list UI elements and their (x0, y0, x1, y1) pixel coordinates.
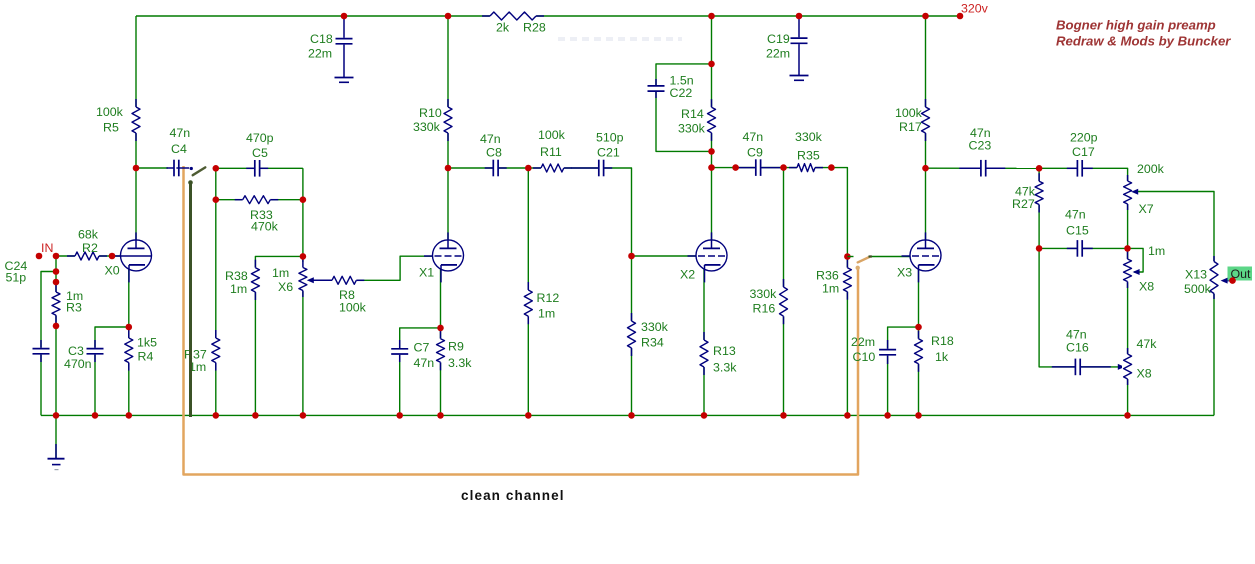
wire R5 branch (135, 16, 137, 168)
junction (445, 13, 452, 20)
wire C7 tee (400, 328, 441, 416)
resistor R37 1m (184, 330, 221, 374)
junction (126, 324, 133, 331)
junction (213, 412, 220, 419)
junction (701, 412, 708, 419)
triode X2 (680, 232, 727, 282)
svg-text:1m: 1m (822, 282, 839, 296)
capacitor C4 right lead (179, 167, 189, 169)
title text (1056, 18, 1231, 49)
svg-text:2k: 2k (496, 21, 510, 35)
svg-text:470p: 470p (246, 131, 274, 145)
svg-text:470k: 470k (251, 220, 279, 234)
svg-text:51p: 51p (6, 271, 27, 285)
capacitor C22 1.5n (647, 74, 694, 101)
resistor R27 47k (1012, 173, 1045, 212)
junction (109, 253, 116, 260)
svg-text:100k: 100k (339, 301, 367, 315)
capacitor C24 51p (5, 259, 51, 362)
svg-text:IN: IN (41, 241, 53, 255)
svg-text:R11: R11 (540, 145, 562, 159)
junction (732, 164, 739, 171)
junction (628, 253, 635, 260)
wire C23 row (926, 167, 1040, 169)
svg-text:470n: 470n (64, 357, 92, 371)
junction (708, 61, 715, 68)
svg-text:R16: R16 (753, 302, 776, 316)
svg-text:1k5: 1k5 (137, 336, 157, 350)
junction (796, 13, 803, 20)
capacitor C7 47n (391, 340, 435, 370)
junction (300, 196, 307, 203)
junction (53, 253, 60, 260)
svg-text:1m: 1m (272, 266, 289, 280)
junction (1124, 245, 1131, 252)
junction (1036, 165, 1043, 172)
wire X3 grid (872, 256, 911, 258)
junction (525, 412, 532, 419)
wire C3 tee (95, 327, 129, 415)
svg-text:R38: R38 (225, 269, 248, 283)
svg-text:100k: 100k (538, 128, 566, 142)
capacitor C21 510p (571, 131, 623, 178)
junction (957, 13, 964, 20)
svg-text:22m: 22m (308, 47, 332, 61)
svg-text:330k: 330k (678, 122, 706, 136)
svg-text:22m: 22m (851, 335, 875, 349)
svg-text:R28: R28 (523, 21, 546, 35)
svg-text:R27: R27 (1012, 197, 1035, 211)
resistor R13 3.3k (698, 332, 737, 375)
junction (300, 253, 307, 260)
potentiometer X13 500k (1184, 256, 1232, 299)
svg-text:C15: C15 (1066, 224, 1089, 238)
potentiometer X8 middle 1m (1122, 244, 1165, 294)
svg-text:X7: X7 (1139, 202, 1154, 216)
resistor R3 1m (50, 284, 83, 323)
junction (844, 412, 851, 419)
node Out label (1228, 267, 1253, 284)
resistor R33 470k (235, 194, 279, 233)
svg-text:C4: C4 (171, 142, 187, 156)
ground at C18 (335, 78, 354, 83)
junction (1036, 245, 1043, 252)
triode X1 (419, 232, 464, 282)
wire X2 cathode / R13 (703, 268, 705, 415)
junction (915, 412, 922, 419)
svg-text:C7: C7 (414, 341, 430, 355)
svg-text:R2: R2 (82, 241, 98, 255)
svg-text:330k: 330k (413, 120, 441, 134)
junction (213, 165, 220, 172)
svg-text:1m: 1m (538, 307, 555, 321)
svg-text:C23: C23 (969, 139, 992, 153)
svg-text:1m: 1m (1148, 244, 1165, 258)
resistor R4 1k5 (123, 330, 157, 371)
wire R33 row (216, 199, 303, 201)
svg-text:X8: X8 (1137, 367, 1152, 381)
wire R12 branch (527, 168, 529, 415)
svg-text:22m: 22m (766, 47, 790, 61)
resistor R36 1m (816, 260, 853, 300)
svg-text:X8: X8 (1139, 280, 1154, 294)
wire IN column (55, 256, 57, 459)
svg-text:47n: 47n (170, 126, 191, 140)
capacitor C17 220p (1067, 131, 1098, 178)
svg-text:R5: R5 (103, 121, 119, 135)
svg-text:Redraw & Mods by Buncker: Redraw & Mods by Buncker (1056, 34, 1231, 49)
junction (708, 148, 715, 155)
capacitor C15 47n (1065, 208, 1093, 258)
junction (53, 268, 60, 275)
capacitor C4 47n (166, 126, 190, 177)
capacitor C18 22m (308, 16, 353, 78)
svg-text:C10: C10 (853, 350, 876, 364)
svg-text:C16: C16 (1066, 341, 1089, 355)
resistor R8 100k (313, 275, 367, 315)
wire R38 tee (255, 256, 303, 415)
svg-text:C5: C5 (252, 146, 268, 160)
resistor R9 3.3k (435, 331, 472, 371)
resistor R11 100k (533, 128, 572, 174)
resistor R10 330k (413, 99, 454, 141)
junction (53, 412, 60, 419)
wire R37 branch (215, 168, 217, 415)
svg-text:R13: R13 (713, 344, 736, 358)
wire X2 grid (632, 255, 697, 257)
resistor R14 330k (678, 99, 717, 141)
svg-text:220p: 220p (1070, 131, 1098, 145)
junction (708, 164, 715, 171)
svg-text:R4: R4 (138, 350, 154, 364)
svg-text:C18: C18 (310, 32, 333, 46)
wire X7 wiper to X13 (1136, 192, 1214, 416)
wire X8 wiper bracket (1128, 248, 1144, 272)
junction (884, 412, 891, 419)
resistor R17 100k (895, 99, 931, 141)
svg-text:3.3k: 3.3k (713, 361, 737, 375)
svg-text:3.3k: 3.3k (448, 356, 472, 370)
resistor R12 1m (523, 282, 560, 324)
potentiometer X6 1m (272, 256, 314, 297)
capacitor C16 47n (1052, 328, 1111, 377)
wire thick dark green clean channel (189, 184, 192, 417)
svg-text:100k: 100k (895, 106, 923, 120)
resistor R34 330k (626, 313, 669, 356)
wire ground rail (41, 414, 1214, 416)
resistor R5 100k (96, 99, 142, 141)
wire X0 plate (135, 168, 137, 241)
pin arrow into X8 lower (1118, 364, 1125, 370)
junction (445, 165, 452, 172)
ground main (48, 444, 65, 470)
wire R27 column / C16 row (1039, 168, 1118, 367)
junction (708, 13, 715, 20)
wire C24 branch (41, 272, 56, 416)
junction (780, 164, 787, 171)
wire C15 row (1039, 247, 1127, 249)
wire 320v top rail (136, 15, 960, 17)
capacitor C23 47n (959, 126, 1005, 177)
svg-text:68k: 68k (78, 228, 99, 242)
junction (780, 412, 787, 419)
svg-text:R35: R35 (797, 149, 820, 163)
svg-text:Bogner high gain preamp: Bogner high gain preamp (1056, 18, 1216, 33)
wire C8 row (448, 167, 528, 169)
svg-text:47k: 47k (1137, 337, 1158, 351)
capacitor C8 47n (480, 132, 507, 177)
junction (915, 324, 922, 331)
svg-text:R17: R17 (899, 120, 922, 134)
svg-text:X13: X13 (1185, 268, 1207, 282)
svg-text:C8: C8 (486, 146, 502, 160)
svg-text:320v: 320v (961, 2, 989, 16)
triode X0 (105, 232, 152, 282)
resistor R2 68k (67, 228, 107, 262)
svg-text:X2: X2 (680, 268, 695, 282)
svg-text:R14: R14 (681, 107, 704, 121)
wire C10 tee (888, 327, 919, 415)
resistor R16 330k (750, 279, 790, 324)
wire X3 cathode (918, 268, 920, 327)
wire orange clean channel loop (184, 166, 859, 475)
svg-text:clean channel: clean channel (461, 488, 565, 503)
junction (922, 13, 929, 20)
potentiometer X8 lower 47k (1122, 337, 1157, 385)
junction (252, 412, 259, 419)
svg-text:100k: 100k (96, 105, 124, 119)
switch S1 at C4 output (188, 167, 205, 185)
junction (92, 412, 99, 419)
wire X1 cathode (440, 268, 442, 328)
svg-text:330k: 330k (795, 130, 823, 144)
wire R4 branch (128, 327, 130, 415)
junction (213, 196, 220, 203)
svg-text:47n: 47n (743, 130, 764, 144)
wire C17 X7 X8 column (1039, 168, 1128, 415)
capacitor C9 47n (737, 130, 780, 177)
potentiometer X7 200k (1122, 162, 1165, 216)
junction (300, 412, 307, 419)
junction (1124, 412, 1131, 419)
svg-text:C9: C9 (747, 146, 763, 160)
switch S2 at X3 grid (847, 257, 872, 270)
svg-text:47n: 47n (1066, 328, 1087, 342)
svg-text:R3: R3 (66, 301, 82, 315)
junction (126, 412, 133, 419)
wire node C4 left (136, 167, 168, 169)
wire R9 branch (440, 328, 442, 416)
junction (437, 325, 444, 332)
wire R11 C21 row (528, 168, 631, 415)
wire R36 branch (846, 257, 848, 416)
wire R10/X1 plate branch (447, 16, 449, 241)
wire X6 wiper to X1 grid (309, 256, 433, 280)
svg-text:X6: X6 (278, 280, 293, 294)
capacitor C3 470n (64, 340, 104, 371)
svg-text:200k: 200k (1137, 162, 1165, 176)
wire C5 right branch (302, 168, 304, 415)
capacitor C5 470p (246, 131, 274, 178)
resistor R35 330k (789, 130, 823, 173)
svg-text:47n: 47n (1065, 208, 1086, 222)
wire R18 branch (918, 327, 920, 415)
wire R17/X3 plate branch (925, 16, 927, 241)
svg-text:47n: 47n (480, 132, 501, 146)
junction (53, 323, 60, 330)
junction (628, 412, 635, 419)
svg-text:330k: 330k (750, 287, 778, 301)
svg-text:C21: C21 (597, 146, 620, 160)
resistor R28 2k (482, 10, 546, 34)
capacitor C19 22m (766, 16, 808, 76)
ground at C19 (790, 76, 809, 81)
wire X0 grid (56, 255, 121, 257)
faint smudge (558, 37, 682, 41)
wire C22 loop (656, 64, 712, 151)
junction (437, 412, 444, 419)
svg-text:R36: R36 (816, 269, 839, 283)
capacitor C10 22m (851, 335, 897, 364)
svg-text:R10: R10 (419, 106, 442, 120)
junction (922, 165, 929, 172)
svg-text:R34: R34 (641, 336, 664, 350)
wire X0 cathode (128, 268, 130, 327)
svg-text:X1: X1 (419, 266, 434, 280)
svg-text:47n: 47n (414, 356, 435, 370)
wire C4 node to C5 (216, 167, 303, 169)
svg-text:R18: R18 (931, 334, 954, 348)
svg-text:330k: 330k (641, 320, 669, 334)
svg-text:510p: 510p (596, 131, 624, 145)
junction (36, 253, 43, 260)
svg-text:1m: 1m (230, 282, 247, 296)
junction (341, 13, 348, 20)
wire C9 R35 row (712, 168, 848, 257)
svg-text:X0: X0 (105, 264, 120, 278)
junction (396, 412, 403, 419)
wire R14/X2 plate branch (711, 16, 713, 241)
triode X3 (897, 232, 941, 282)
svg-text:X3: X3 (897, 266, 912, 280)
junction (53, 279, 60, 286)
svg-text:C17: C17 (1072, 145, 1095, 159)
svg-text:C3: C3 (68, 344, 84, 358)
wire R16 branch (783, 168, 785, 416)
svg-text:500k: 500k (1184, 282, 1212, 296)
svg-text:C19: C19 (767, 32, 790, 46)
resistor R38 1m (225, 260, 261, 300)
resistor R18 1k (913, 331, 954, 372)
junction (525, 165, 532, 172)
svg-text:R9: R9 (448, 340, 464, 354)
junction (844, 253, 851, 260)
svg-text:C22: C22 (670, 86, 693, 100)
junction (828, 164, 835, 171)
svg-text:1k: 1k (935, 350, 949, 364)
junction (133, 165, 140, 172)
svg-text:R12: R12 (537, 291, 560, 305)
